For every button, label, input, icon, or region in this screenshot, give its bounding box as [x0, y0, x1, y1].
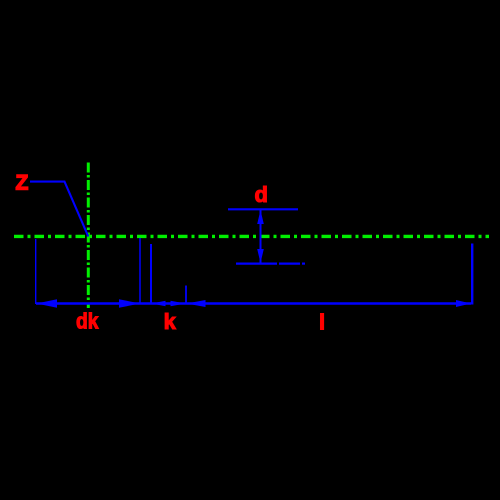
wire extension k-left	[150, 244, 152, 304]
svg-text:k: k	[164, 309, 177, 334]
wire d-extent-top	[228, 208, 298, 210]
arrow d-down	[257, 249, 264, 263]
wire d-extent-bottom	[236, 263, 305, 265]
arrow d-up	[257, 210, 264, 224]
arrow k-left	[152, 301, 166, 307]
svg-text:l: l	[319, 309, 325, 334]
arrow l-right	[456, 300, 471, 307]
wire extension l-right	[471, 244, 473, 305]
arrow dk-left	[37, 299, 58, 308]
wire extension k-right	[185, 286, 187, 305]
centerline horizontal (green dash-dot axis)	[14, 235, 489, 238]
wire d-dimension-line (vertical)	[260, 210, 262, 263]
wire extension dk-left	[35, 239, 37, 304]
wire dimension-line-bottom (shared dk / k / l)	[36, 302, 471, 304]
wire leader-z (from label z to centerline intersection)	[30, 182, 88, 237]
svg-text:d: d	[255, 182, 268, 207]
svg-text:dk: dk	[76, 309, 99, 334]
arrow l-left	[187, 300, 206, 307]
svg-text:Z: Z	[16, 172, 29, 195]
arrow k-right	[171, 301, 186, 307]
centerline vertical (green dash-dot axis)	[87, 163, 90, 309]
arrow dk-right	[119, 299, 140, 308]
wire extension dk-right	[139, 238, 141, 304]
